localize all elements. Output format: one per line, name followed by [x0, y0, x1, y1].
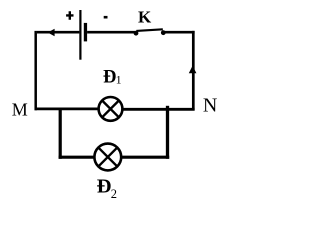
svg-text:M: M	[12, 100, 28, 120]
current arrow on top-left wire	[48, 29, 55, 37]
svg-text:N: N	[203, 95, 217, 117]
switch K right contact	[161, 30, 166, 35]
label +	[66, 11, 73, 20]
lamp D1 cross stroke 1	[102, 101, 119, 118]
lamp D1 circle	[99, 97, 123, 121]
svg-text:2: 2	[111, 187, 117, 201]
svg-text:Đ: Đ	[103, 68, 116, 88]
node M corner: wire M to lamp D1	[35, 108, 99, 111]
lamp D2 circle	[94, 144, 121, 171]
current arrow on right vertical wire	[189, 66, 197, 74]
battery B1 negative plate	[84, 23, 87, 42]
wire left stub down from M-N line	[59, 109, 62, 159]
wire right vertical (corner to N)	[192, 31, 195, 111]
wire lamp D2 to bottom-right segment	[121, 156, 170, 159]
battery B1 positive plate	[79, 10, 81, 60]
switch K lever	[136, 29, 163, 31]
lamp D1 cross stroke 2	[102, 101, 119, 118]
wire bottom-left segment to lamp D2	[59, 156, 95, 159]
wire left vertical (corner to M)	[34, 31, 37, 110]
wire switch to right corner	[164, 31, 194, 34]
lamp D2 cross stroke 2	[99, 148, 118, 167]
label -	[104, 16, 108, 19]
svg-text:K: K	[138, 8, 152, 27]
wire right stub down from M-N line	[166, 106, 169, 159]
svg-text:1: 1	[116, 73, 122, 87]
svg-text:Đ: Đ	[97, 176, 112, 198]
wire top-left segment (battery + to left corner)	[37, 31, 80, 34]
wire battery to switch	[87, 31, 135, 34]
lamp D2 cross stroke 1	[99, 148, 118, 167]
switch K left contact	[134, 31, 139, 36]
wire lamp D1 to N corner	[123, 108, 195, 111]
